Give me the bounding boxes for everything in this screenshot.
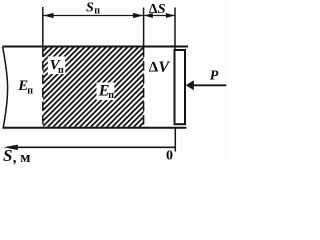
dashed boundary right of hatch xyxy=(143,48,145,127)
dS left arrowhead xyxy=(144,13,153,18)
white label box E_p center xyxy=(97,83,115,101)
dashed boundary left of hatch xyxy=(42,48,44,127)
svg-text:S: S xyxy=(158,2,166,17)
dS right arrowhead xyxy=(166,13,175,18)
svg-text:P: P xyxy=(210,69,219,84)
svg-text:п: п xyxy=(27,85,33,96)
svg-text:S: S xyxy=(86,0,94,15)
svg-text:Δ: Δ xyxy=(149,60,159,76)
extension line below piston to S axis xyxy=(174,127,176,152)
white label box V_p xyxy=(48,57,65,75)
pressure arrow P shaft xyxy=(192,84,226,86)
cylinder left curved edge xyxy=(3,47,8,128)
piston xyxy=(175,50,186,124)
svg-text:0: 0 xyxy=(166,149,173,164)
svg-text:V: V xyxy=(158,59,170,76)
S_p left arrowhead xyxy=(43,13,53,18)
svg-text:, м: , м xyxy=(13,150,31,166)
svg-text:п: п xyxy=(58,65,64,76)
P arrowhead xyxy=(186,80,194,90)
svg-text:S: S xyxy=(3,146,12,165)
S_p right arrowhead xyxy=(133,13,143,18)
extension line right / piston face (x=175) xyxy=(174,8,176,51)
hatched region E_p (explosion products) xyxy=(43,47,143,126)
svg-text:п: п xyxy=(108,90,114,101)
cylinder bottom edge xyxy=(3,127,187,129)
S axis arrowhead xyxy=(4,145,18,150)
extension line left (x=42.8) xyxy=(42,7,44,47)
svg-text:п: п xyxy=(94,5,100,16)
dimension S_p shaft xyxy=(44,15,144,17)
S axis shaft xyxy=(8,146,176,148)
extension line middle (x=143.6) xyxy=(143,8,145,48)
cylinder top edge xyxy=(3,46,189,48)
svg-text:Δ: Δ xyxy=(149,2,158,17)
dimension dS shaft xyxy=(144,15,174,17)
